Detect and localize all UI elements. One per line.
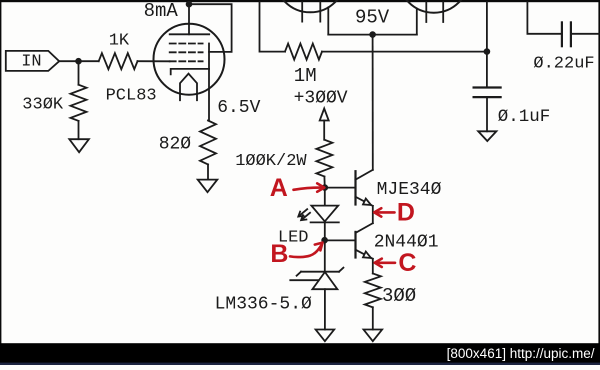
tube T2 heater legs <box>301 2 303 21</box>
ground below 820 <box>198 180 218 193</box>
arrow D <box>378 211 395 214</box>
wire 1M to cap node <box>322 51 487 53</box>
grid dashes row1 <box>170 43 203 45</box>
arrow B <box>290 245 322 257</box>
power arrow up <box>320 109 329 121</box>
svg-text:6.5V: 6.5V <box>217 98 260 118</box>
wire plate loop top <box>189 4 232 52</box>
tube T3 envelope arc <box>398 0 469 13</box>
cathode line <box>171 69 209 75</box>
bottom bar <box>0 343 600 365</box>
frame left border <box>0 0 1 344</box>
heater tent <box>180 74 197 101</box>
svg-text:8mA: 8mA <box>144 0 179 22</box>
tube PCL83 envelope <box>154 24 225 95</box>
svg-text:IN: IN <box>21 53 41 72</box>
wire 95V rail <box>328 34 417 36</box>
wire 95V node down to collector <box>372 35 374 170</box>
wire IN to node <box>59 60 78 62</box>
resistor R 1K <box>79 60 99 62</box>
junction node B <box>321 237 328 244</box>
svg-text:1M: 1M <box>294 65 317 87</box>
resistor 330K <box>78 61 80 84</box>
svg-text:LM336-5.Ø: LM336-5.Ø <box>215 295 312 315</box>
svg-text:C: C <box>398 249 416 277</box>
grid dashes row2 <box>170 51 203 53</box>
tube T3 heater legs <box>425 2 427 22</box>
diode LED <box>311 206 338 222</box>
svg-text:D: D <box>397 199 415 227</box>
plate lead <box>188 4 190 34</box>
tube T3 cathode lead <box>416 9 418 35</box>
ground below 330K <box>69 139 89 152</box>
junction input node <box>75 58 82 65</box>
capacitor 0.1uF <box>474 86 501 88</box>
svg-text:MJE34Ø: MJE34Ø <box>377 180 442 200</box>
frame right border <box>598 0 600 344</box>
resistor 100K/2W <box>316 140 332 177</box>
wire node B to 2N4401 base <box>325 239 356 241</box>
LED emission arrows <box>299 209 307 216</box>
junction 95V node <box>369 31 376 38</box>
wire MJE340 emitter to 2N4401 collector <box>372 206 374 223</box>
svg-text:95V: 95V <box>355 7 390 29</box>
wire 0.22uF branch <box>527 2 561 34</box>
frame top border <box>0 0 600 2</box>
svg-text:[800x461] http://upic.me/: [800x461] http://upic.me/ <box>447 346 595 361</box>
transistor Q MJE340 <box>354 171 356 204</box>
svg-text:Ø.1uF: Ø.1uF <box>498 107 551 127</box>
wire node B down <box>324 240 326 272</box>
svg-text:33ØK: 33ØK <box>22 95 64 114</box>
ground below 300 <box>364 330 383 342</box>
ground below LM336 <box>316 330 335 342</box>
resistor 1M <box>285 44 322 60</box>
wire from top to cap node <box>486 2 488 87</box>
svg-text:B: B <box>270 240 288 268</box>
junction plate node <box>186 1 193 8</box>
svg-text:A: A <box>270 174 288 202</box>
wire emitter to 300 <box>372 259 374 274</box>
svg-text:PCL83: PCL83 <box>106 86 157 105</box>
tube plate <box>170 33 210 35</box>
red annotations <box>270 174 417 277</box>
grid connector vertical <box>208 44 210 69</box>
input flag IN <box>6 51 59 71</box>
svg-text:82Ø: 82Ø <box>159 134 192 154</box>
tube T2 envelope arc <box>275 0 346 12</box>
tube T2 cathode lead <box>327 8 329 35</box>
resistor 300 <box>365 274 381 308</box>
svg-text:Ø.22uF: Ø.22uF <box>533 54 594 73</box>
svg-text:1ØØK/2W: 1ØØK/2W <box>235 152 307 171</box>
wire node A to base <box>325 187 356 189</box>
cathode lead down <box>208 69 210 121</box>
wire 1K to grid <box>138 60 170 62</box>
resistor 820 <box>200 121 216 165</box>
arrow A <box>294 188 321 190</box>
svg-text:1K: 1K <box>109 32 130 51</box>
zener LM336-5.0 <box>301 271 339 273</box>
capacitor 0.22uF <box>561 22 563 46</box>
transistor Q 2N4401 <box>354 232 356 258</box>
zener adj stub <box>290 279 318 281</box>
junction node A <box>322 184 329 191</box>
grid dashes row3 <box>170 60 203 62</box>
ground below 0.1uF <box>478 131 496 141</box>
wire top feed 1M branch <box>260 2 286 51</box>
junction cap node <box>484 48 491 55</box>
svg-text:3ØØ: 3ØØ <box>382 285 416 307</box>
svg-text:+3ØØV: +3ØØV <box>294 89 348 109</box>
wire node A to LED <box>324 188 326 206</box>
arrow C <box>378 261 395 264</box>
